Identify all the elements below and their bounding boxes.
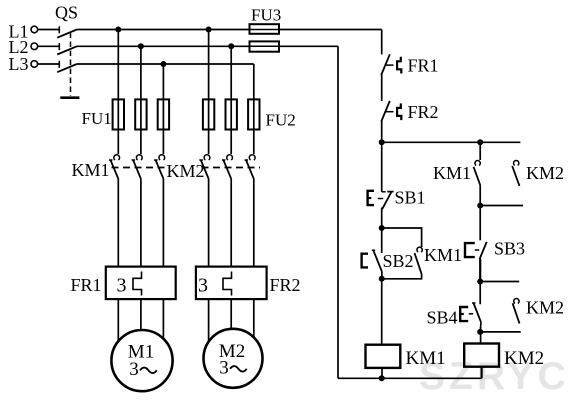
- pushbutton SB1 fixed contact foot: [382, 191, 386, 193]
- wire M2 lead 2: [230, 299, 232, 329]
- svg-text:FU2: FU2: [266, 110, 296, 129]
- thermal relay FR1 contact actuator: [397, 57, 401, 74]
- fuse FU2 element 1: [203, 99, 214, 129]
- svg-text:SB2: SB2: [383, 251, 414, 271]
- svg-text:KM1: KM1: [72, 160, 110, 180]
- contactor KM1 main contact 1 hook: [114, 155, 120, 160]
- wire node E right: [480, 205, 523, 207]
- wire L2 after FU3 to neutral feeder: [279, 45, 338, 47]
- pushbutton SB4 actuator bracket: [460, 307, 468, 321]
- switch QS handle bar: [60, 96, 79, 99]
- wire drop column FU23 from bus to contact: [253, 64, 255, 154]
- switch QS fixed contact L1: [58, 26, 60, 33]
- wire node E to SB3: [479, 206, 481, 241]
- pushbutton SB3 blade: [480, 242, 487, 259]
- wire SB4 to node G: [479, 322, 482, 332]
- coil KM1: [366, 345, 401, 368]
- pushbutton SB1 link dash: [378, 198, 383, 200]
- contactor KM2 interlock contact blade: [512, 166, 519, 186]
- fuse FU2 element 2: [226, 99, 237, 129]
- fuse FU3a: [250, 24, 280, 34]
- node L2-FU1b junction: [138, 43, 144, 49]
- wire below contact FU23: [253, 178, 255, 266]
- wire control rail top corner: [381, 30, 383, 55]
- pushbutton SB1 actuator bracket: [368, 191, 374, 205]
- coil KM2: [464, 344, 499, 367]
- svg-text:SB3: SB3: [494, 239, 525, 259]
- fuse FU3b: [250, 41, 280, 51]
- contactor KM1 main contact 3 hook: [159, 155, 165, 160]
- contactor KM1 main contact 1 blade: [111, 160, 119, 178]
- wire rail FR1 to FR2: [381, 75, 383, 102]
- fuse FU1 element 3: [158, 99, 169, 129]
- svg-text:KM1: KM1: [424, 245, 462, 265]
- contactor KM1 main contact 2 hook: [136, 155, 142, 160]
- pushbutton SB2 actuator bracket: [362, 254, 368, 268]
- wire M1 lead 2: [140, 299, 142, 330]
- wire L2 bus: [77, 45, 250, 47]
- node B: [379, 225, 385, 231]
- wire rail FR2 to node A: [381, 121, 383, 142]
- wire neutral feeder vertical: [337, 46, 339, 378]
- node KM1 bottom rail: [379, 375, 385, 381]
- contactor KM1 aux contact blade: [474, 167, 481, 186]
- svg-text:3: 3: [219, 358, 229, 379]
- wire node A to SB1: [381, 142, 383, 192]
- svg-text:KM1: KM1: [406, 348, 446, 369]
- wire drop column FU11 from bus to contact: [117, 30, 119, 155]
- svg-text:3: 3: [198, 275, 208, 297]
- wire node G to coil KM2: [480, 332, 482, 344]
- wire node D drop: [479, 142, 481, 160]
- wire L2 terminal to QS: [38, 45, 60, 47]
- pushbutton SB3 actuator bracket: [465, 243, 475, 257]
- svg-text:FR2: FR2: [408, 102, 439, 122]
- wire node F to SB4: [479, 282, 481, 305]
- thermal relay FR2 contact link dash: [386, 111, 394, 113]
- wire SB1 to node B: [381, 208, 383, 229]
- contactor KM2 main contact 2 blade: [223, 160, 231, 178]
- wire SB3 to node F: [479, 259, 481, 282]
- contactor KM2 main contact 2 hook: [227, 155, 233, 160]
- svg-text:SB1: SB1: [395, 188, 426, 208]
- thermal relay FR1 contact link dash: [386, 64, 394, 66]
- wire through FU3b: [250, 45, 280, 47]
- svg-text:3: 3: [117, 275, 127, 297]
- node C: [379, 276, 385, 282]
- switch QS blade L1: [57, 30, 77, 38]
- wire below contact FU13: [162, 178, 164, 266]
- wire L1 terminal to QS: [38, 29, 60, 31]
- pushbutton SB4 link dash: [469, 313, 473, 315]
- terminal L2: [31, 43, 38, 50]
- node L1-FU1a junction: [115, 27, 121, 33]
- terminal L3: [31, 61, 38, 68]
- thermal relay FR1 heater symbol: [133, 272, 142, 296]
- contactor KM1 main contact 2 blade: [133, 160, 141, 178]
- switch QS fixed contact L3: [58, 61, 60, 68]
- switch QS fixed contact L2: [58, 43, 60, 50]
- contactor KM1 aux self-hold hook: [417, 247, 422, 252]
- switch QS blade L3: [57, 64, 77, 72]
- contactor KM2 main link dashed: [202, 167, 261, 169]
- node A: [379, 139, 385, 145]
- switch QS blade L2: [57, 46, 77, 54]
- node L3-FU1c junction: [160, 61, 166, 67]
- wire L1 bus: [77, 29, 250, 31]
- svg-text:KM2: KM2: [167, 161, 205, 181]
- node F: [477, 279, 483, 285]
- node G: [477, 329, 483, 335]
- thermal relay FR2 box: [196, 267, 267, 300]
- svg-text:FU1: FU1: [82, 109, 112, 128]
- wire node B to SB2: [381, 228, 383, 253]
- svg-text:KM2: KM2: [526, 298, 564, 318]
- fuse FU2 element 3: [248, 99, 259, 129]
- wire node G right: [480, 331, 521, 333]
- wire M2 lead 1: [208, 299, 210, 342]
- svg-text:L3: L3: [9, 54, 29, 74]
- motor M2 circle: [204, 329, 263, 388]
- contactor KM2 main contact 3 blade: [246, 160, 254, 178]
- node L2-FU2b junction: [228, 43, 234, 49]
- wire L3 terminal to QS: [38, 63, 60, 65]
- wire KM1 aux to node E: [479, 186, 481, 206]
- switch QS link dashed: [70, 33, 72, 97]
- svg-text:KM2: KM2: [504, 348, 544, 369]
- node L1-FU2a junction: [206, 27, 212, 33]
- wire below contact FU11: [117, 178, 119, 266]
- svg-text:KM2: KM2: [526, 163, 564, 183]
- wire M2 lead 3: [253, 299, 255, 337]
- fuse FU1 element 1: [113, 99, 124, 129]
- contactor KM2 interlock contact hook: [513, 160, 518, 165]
- svg-text:FU3: FU3: [251, 5, 281, 24]
- svg-text:FR1: FR1: [71, 275, 102, 295]
- thermal relay FR1 contact blade: [381, 54, 390, 75]
- contactor KM2 self-hold blade: [513, 303, 520, 323]
- wire L3 bus: [77, 63, 254, 65]
- svg-text:FR1: FR1: [408, 56, 439, 76]
- pushbutton SB2 blade: [374, 251, 382, 272]
- node E: [477, 203, 483, 209]
- contactor KM1 main contact 3 blade: [156, 160, 164, 178]
- pushbutton SB4 blade: [474, 304, 481, 323]
- wire parallel branch top: [382, 228, 422, 247]
- contactor KM2 main contact 3 hook: [249, 155, 255, 160]
- fuse FU1 element 2: [135, 99, 146, 129]
- pushbutton SB3 link dash: [475, 249, 479, 251]
- svg-text:3: 3: [129, 359, 139, 380]
- contactor KM1 main link dashed: [112, 167, 170, 169]
- wire SB2 to node C: [381, 272, 383, 279]
- motor M1 circle: [111, 330, 172, 391]
- terminal L1: [31, 26, 38, 33]
- node D: [477, 139, 483, 145]
- contactor KM1 aux self-hold blade: [415, 253, 422, 274]
- svg-text:QS: QS: [55, 3, 78, 23]
- wire node A to right branch: [382, 141, 521, 143]
- wire M1 lead 3: [162, 299, 164, 339]
- wire control bottom rail: [338, 377, 482, 379]
- wire drop column FU12 from bus to contact: [140, 46, 142, 154]
- contactor KM1 aux contact hook: [475, 161, 480, 166]
- wire coil KM1 to bottom rail: [381, 368, 383, 378]
- svg-text:SB4: SB4: [427, 308, 458, 328]
- svg-text:FR2: FR2: [270, 275, 301, 295]
- wire parallel branch bottom: [382, 274, 422, 279]
- wire drop column FU22 from bus to contact: [230, 46, 232, 154]
- wire coil KM2 to bottom rail: [481, 367, 483, 379]
- wire drop column FU21 from bus to contact: [208, 30, 210, 155]
- wire through FU3a: [250, 29, 280, 31]
- svg-text:KM1: KM1: [433, 163, 471, 183]
- contactor KM2 self-hold hook: [514, 299, 519, 304]
- wire below contact FU12: [140, 178, 142, 266]
- contactor KM2 main contact 1 blade: [201, 160, 209, 178]
- wire node F right: [480, 281, 519, 283]
- wire M1 lead 1: [117, 299, 119, 341]
- thermal relay FR2 contact blade: [381, 101, 390, 122]
- thermal relay FR1 box: [106, 267, 176, 300]
- wire below contact FU21: [208, 178, 210, 266]
- wire drop column FU13 from bus to contact: [162, 64, 164, 154]
- pushbutton SB1 blade: [382, 192, 391, 209]
- wire below contact FU22: [230, 178, 232, 266]
- thermal relay FR2 contact actuator: [397, 103, 401, 120]
- wire node C to coil KM1: [381, 279, 383, 345]
- thermal relay FR2 heater symbol: [223, 272, 232, 296]
- contactor KM2 main contact 1 hook: [204, 155, 210, 160]
- wire L1 after FU3 to control rail: [279, 29, 382, 31]
